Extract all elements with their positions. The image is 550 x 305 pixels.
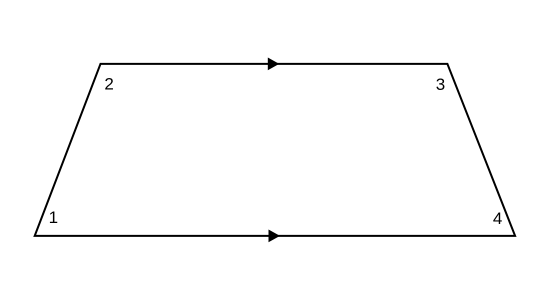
trapezoid outline xyxy=(35,64,515,236)
svg-text:3: 3 xyxy=(436,75,445,94)
svg-text:4: 4 xyxy=(493,209,502,228)
top edge arrow xyxy=(268,58,279,71)
bottom edge arrow xyxy=(269,230,281,243)
svg-text:1: 1 xyxy=(49,208,58,227)
svg-text:2: 2 xyxy=(104,75,113,94)
